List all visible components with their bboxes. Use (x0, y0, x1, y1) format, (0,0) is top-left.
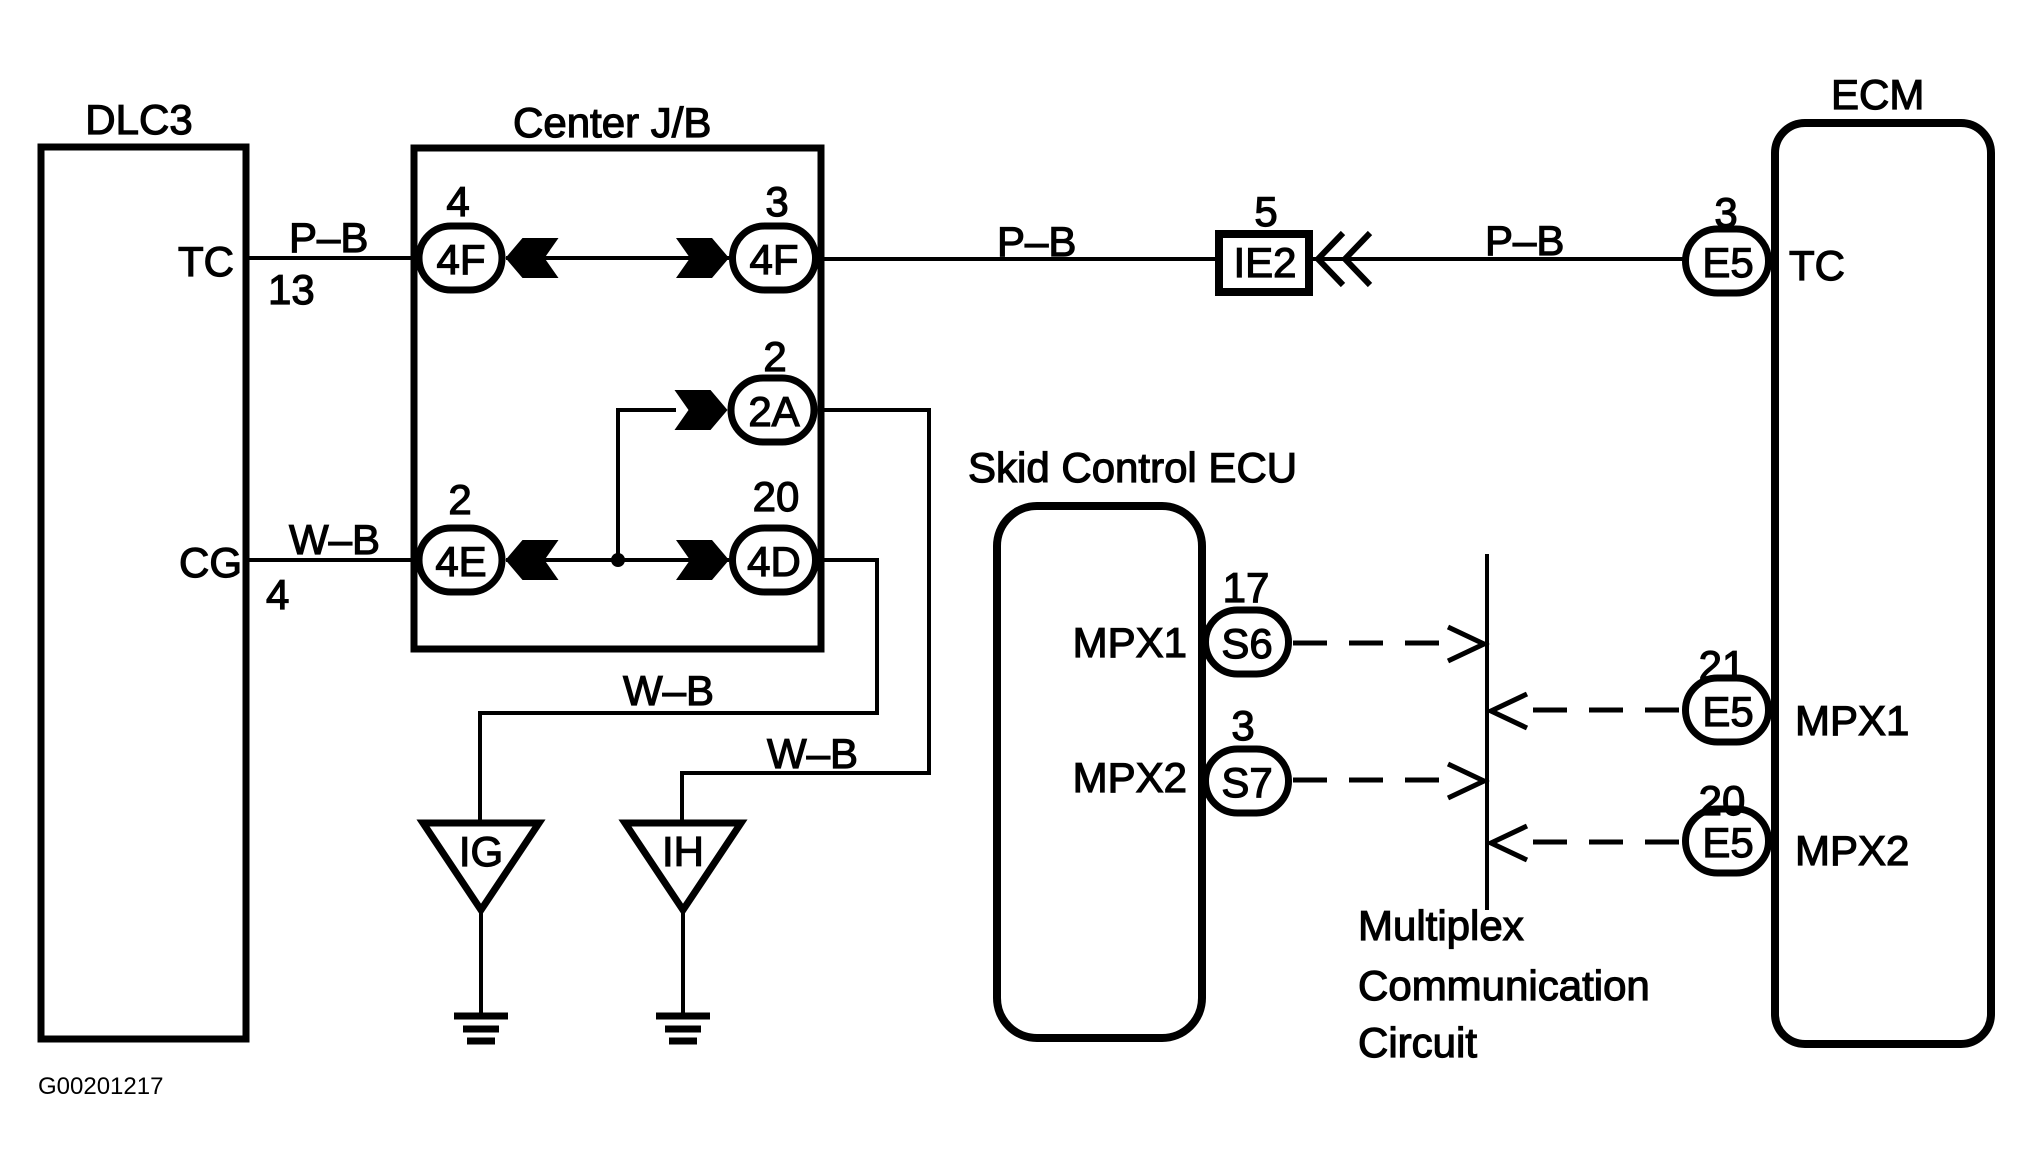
svg-text:4F: 4F (749, 236, 798, 283)
svg-text:S6: S6 (1221, 620, 1272, 667)
svg-text:4D: 4D (747, 538, 801, 585)
connector IE2 (1219, 234, 1309, 292)
svg-text:4F: 4F (436, 236, 485, 283)
connector 4F pin 4 (419, 226, 502, 290)
arrowhead into multiplex line from S6 (1448, 627, 1484, 661)
svg-text:TC: TC (178, 238, 234, 285)
svg-text:2: 2 (763, 333, 786, 380)
svg-text:E5: E5 (1702, 688, 1753, 735)
dashed wire S6 to multiplex line (1293, 641, 1446, 646)
svg-text:17: 17 (1223, 564, 1270, 611)
connector 2A pin 2 (731, 378, 814, 442)
junction dot (611, 553, 625, 567)
svg-text:2: 2 (448, 476, 471, 523)
svg-text:Skid Control ECU: Skid Control ECU (968, 444, 1297, 491)
dashed wire multiplex line to E5 MPX1 (1533, 708, 1683, 713)
connector 4F pin 3 (733, 226, 816, 290)
arrow into 4F right (pointing right) (676, 238, 729, 278)
svg-text:13: 13 (268, 266, 315, 313)
ground symbol IH (656, 1016, 710, 1041)
svg-text:S7: S7 (1221, 759, 1272, 806)
splice chevrons (1318, 233, 1370, 285)
svg-text:Center J/B: Center J/B (513, 99, 711, 146)
svg-text:3: 3 (1231, 702, 1254, 749)
svg-text:P–B: P–B (1485, 217, 1564, 264)
svg-text:4: 4 (446, 178, 469, 225)
ECU ECM box (1775, 123, 1991, 1044)
wire IH to ground (681, 910, 685, 1014)
svg-text:E5: E5 (1702, 819, 1753, 866)
svg-text:CG: CG (179, 539, 242, 586)
svg-text:Multiplex: Multiplex (1358, 902, 1524, 949)
connector 4E pin 2 (419, 528, 502, 592)
arrowhead to E5 MPX2 (pointing left) (1491, 826, 1527, 860)
svg-text:W–B: W–B (767, 730, 858, 777)
svg-text:IH: IH (662, 828, 704, 875)
svg-text:MPX2: MPX2 (1795, 827, 1909, 874)
svg-text:E5: E5 (1702, 239, 1753, 286)
svg-text:3: 3 (765, 178, 788, 225)
arrow into 2A (pointing right) (675, 390, 728, 430)
svg-text:IE2: IE2 (1233, 239, 1296, 286)
svg-text:MPX1: MPX1 (1073, 619, 1187, 666)
svg-text:20: 20 (1699, 777, 1746, 824)
ECU Skid Control ECU box (997, 506, 1202, 1038)
wire between 4F connectors (506, 256, 729, 260)
svg-text:W–B: W–B (289, 516, 380, 563)
arrowhead into multiplex line from S7 (1448, 764, 1484, 798)
svg-text:MPX2: MPX2 (1073, 754, 1187, 801)
wire junction to 2A arrow (618, 410, 676, 560)
wire 4F to IE2 (P-B) (819, 257, 1216, 261)
svg-text:5: 5 (1254, 188, 1277, 235)
connector E5 pin 20 (1686, 809, 1769, 873)
connector 4D pin 20 (733, 528, 816, 592)
svg-text:20: 20 (753, 473, 800, 520)
svg-text:MPX1: MPX1 (1795, 697, 1909, 744)
svg-text:Communication: Communication (1358, 962, 1650, 1009)
arrow into 4E (pointing left) (506, 540, 559, 580)
connector E5 pin 21 (1686, 678, 1769, 742)
arrowhead to E5 MPX1 (pointing left) (1491, 694, 1527, 728)
svg-text:IG: IG (459, 828, 503, 875)
svg-text:ECM: ECM (1831, 71, 1924, 118)
node multiplex communication circuit line (1485, 554, 1489, 910)
connector S6 pin 17 (1206, 610, 1289, 674)
wire IG to ground (479, 910, 483, 1014)
svg-text:2A: 2A (748, 388, 799, 435)
svg-text:W–B: W–B (623, 667, 714, 714)
wire 2A to IH ground (W-B) (682, 410, 929, 822)
svg-text:DLC3: DLC3 (85, 96, 192, 143)
ground connector IG triangle (423, 823, 539, 910)
ground connector IH triangle (625, 823, 741, 910)
wire 4D to IG ground (W-B) (480, 560, 877, 822)
connector DLC3 box (41, 147, 246, 1039)
junction block Center J/B box (414, 148, 821, 649)
svg-text:21: 21 (1699, 642, 1746, 689)
wire CG to 4E (W-B) (246, 558, 420, 562)
svg-text:P–B: P–B (997, 218, 1076, 265)
arrow into 4F left (pointing left) (506, 238, 559, 278)
svg-text:P–B: P–B (289, 214, 368, 261)
svg-text:3: 3 (1714, 189, 1737, 236)
arrow into 4D (pointing right) (676, 540, 729, 580)
svg-text:4: 4 (266, 571, 289, 618)
ground symbol IG (454, 1016, 508, 1041)
svg-text:G00201217: G00201217 (38, 1073, 163, 1100)
dashed wire multiplex line to E5 MPX2 (1533, 840, 1683, 845)
wire between 4E and 4D (506, 558, 729, 562)
svg-text:TC: TC (1789, 242, 1845, 289)
svg-text:Circuit: Circuit (1358, 1019, 1477, 1066)
label Multiplex Communication Circuit (1358, 902, 1650, 1066)
svg-text:4E: 4E (435, 538, 486, 585)
wire IE2 to E5 (P-B) (1313, 257, 1683, 261)
connector E5 pin 3 (1686, 229, 1769, 293)
connector S7 pin 3 (1206, 749, 1289, 813)
wire TC to 4F (P-B) (246, 256, 420, 260)
dashed wire S7 to multiplex line (1293, 778, 1446, 783)
